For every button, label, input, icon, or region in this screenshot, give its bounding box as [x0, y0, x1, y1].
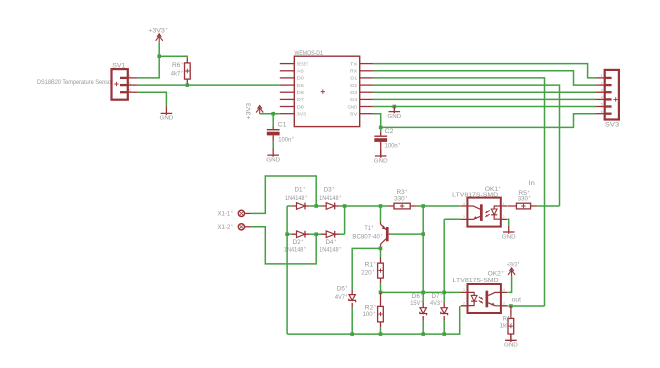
connector SV3 — [605, 70, 619, 120]
svg-text:D3: D3 — [350, 90, 357, 96]
svg-text:GND: GND — [348, 104, 358, 110]
ground GND (SV1) — [160, 106, 174, 122]
terminal X1-1 — [238, 210, 251, 216]
wire T1 collector down — [380, 247, 382, 257]
junction collector to D5 — [379, 247, 383, 251]
wire D3 to SV3 pin3 — [373, 91, 595, 93]
svg-text:1N4148: 1N4148 — [319, 248, 339, 254]
WEMOS left pin D8 — [280, 106, 295, 108]
capacitor C1 top stub — [272, 127, 274, 130]
wire C2 node to SV3 pin6 — [381, 114, 596, 128]
diode D2 stubs — [292, 233, 310, 235]
svg-text:D8: D8 — [297, 104, 304, 110]
svg-text:100n: 100n — [385, 144, 398, 150]
svg-text:4V3: 4V3 — [430, 301, 441, 307]
svg-text:1k5: 1k5 — [500, 323, 511, 329]
WEMOS right pin TX — [360, 63, 373, 65]
SV3 pin 1 — [595, 77, 605, 79]
svg-text:D2: D2 — [350, 83, 357, 89]
wire OK1 emitter vertical — [443, 219, 445, 302]
svg-text:100n: 100n — [278, 138, 291, 144]
SV3 pin 4 — [595, 98, 605, 100]
wire +3V3 to OK2 collector — [508, 276, 511, 292]
svg-text:+3V3: +3V3 — [148, 29, 165, 35]
svg-text:DS18B20 Temperature Sensor: DS18B20 Temperature Sensor — [37, 80, 113, 86]
WEMOS left pin 3V3 — [280, 113, 295, 115]
WEMOS left pin A0 — [280, 70, 295, 72]
svg-text:LTV817S-SMD: LTV817S-SMD — [453, 278, 499, 284]
wire 5V pin to C2 — [373, 114, 381, 128]
svg-text:D7: D7 — [297, 97, 304, 103]
module U1 WEMOS-D1 box — [294, 56, 359, 126]
wire base divider vertical — [422, 206, 424, 302]
svg-text:2: 2 — [601, 81, 603, 85]
junction R6 to data line — [186, 83, 190, 87]
svg-text:D1: D1 — [350, 76, 357, 82]
OK1 phototransistor — [480, 204, 483, 221]
wire R6 bottom — [186, 84, 188, 86]
svg-text:15V: 15V — [410, 301, 420, 307]
svg-text:3: 3 — [601, 88, 603, 92]
resistor R5 stubs — [508, 205, 537, 207]
wire collector to D5 branch — [352, 248, 380, 289]
svg-text:+3V3: +3V3 — [247, 102, 253, 119]
svg-text:In: In — [529, 181, 535, 187]
svg-text:4: 4 — [463, 202, 465, 206]
svg-text:D4: D4 — [326, 240, 335, 246]
capacitor C2 top stub — [380, 132, 382, 136]
svg-text:D5: D5 — [297, 83, 304, 89]
wire down to C1 — [272, 114, 274, 127]
svg-text:R3: R3 — [397, 190, 406, 196]
svg-text:3: 3 — [129, 88, 131, 92]
svg-text:GND: GND — [266, 157, 280, 163]
terminal X1-2 — [238, 224, 251, 230]
svg-text:WEMOS-D1: WEMOS-D1 — [295, 51, 324, 57]
svg-text:6: 6 — [601, 110, 603, 114]
wire D1 cathode to AC1 — [310, 205, 316, 207]
diode D3 — [326, 203, 335, 210]
ground GND (OK1) — [502, 226, 516, 240]
svg-text:GND: GND — [374, 158, 388, 164]
wire D4 cathode — [339, 233, 344, 235]
svg-text:SV1: SV1 — [112, 63, 126, 69]
wire C1 to GND — [272, 141, 274, 148]
ground GND (WEMOS) — [387, 107, 401, 120]
svg-text:1N4148: 1N4148 — [285, 196, 305, 202]
wire OK1 pin2 left — [444, 218, 460, 220]
wire D1 anode — [287, 205, 292, 207]
WEMOS right pin D3 — [360, 91, 373, 93]
WEMOS left pin RESET — [280, 63, 295, 65]
svg-text:4V7: 4V7 — [335, 295, 346, 301]
OK1 LED — [494, 206, 501, 219]
svg-text:D6: D6 — [297, 90, 304, 96]
wire SV1 pin2 data line to WEMOS D5 — [138, 84, 280, 86]
resistor R6 — [185, 63, 191, 79]
svg-text:GND: GND — [502, 234, 516, 240]
resistor R3 stubs — [387, 205, 416, 207]
WEMOS left pin D5 — [280, 84, 295, 86]
wire X1-1 to bridge AC1 — [251, 176, 316, 213]
svg-text:RX: RX — [350, 69, 358, 75]
WEMOS left pin D6 — [280, 91, 295, 93]
wire bridge minus vertical — [286, 206, 288, 334]
wire bridge plus vertical — [344, 206, 346, 234]
zener diode D5 — [349, 295, 356, 303]
junction D3 cathode — [343, 204, 347, 208]
svg-text:1: 1 — [503, 202, 505, 206]
wire D2 to In net vertical — [373, 85, 560, 206]
svg-text:out: out — [512, 297, 521, 303]
svg-text:D3: D3 — [324, 188, 333, 194]
OK1 light arrows — [485, 210, 489, 213]
junction D6 rail — [421, 332, 425, 336]
junction D2 anode — [285, 232, 289, 236]
svg-text:D4: D4 — [350, 97, 357, 103]
svg-text:RESET: RESET — [297, 61, 308, 67]
svg-text:100: 100 — [363, 312, 374, 318]
svg-text:TX: TX — [350, 61, 358, 67]
wire +3V3 to WEMOS 3V3 pin — [260, 113, 280, 115]
OK2 LED — [468, 292, 475, 305]
SV1 pin 2 — [120, 84, 128, 86]
resistor R4 — [508, 318, 514, 334]
zener D7 stubs — [443, 302, 445, 320]
SV1 pin 3 — [120, 91, 128, 93]
wire T1 emitter up — [380, 206, 382, 222]
svg-text:GND: GND — [504, 343, 518, 349]
wire SV1 pin1 to +3V3 junction — [138, 56, 160, 78]
zener diode D7 — [441, 308, 448, 316]
diode D3 stubs — [322, 205, 340, 207]
svg-text:330: 330 — [394, 196, 405, 202]
wire D6 to rail — [422, 321, 424, 335]
svg-text:1: 1 — [129, 74, 131, 78]
svg-text:1: 1 — [463, 288, 465, 292]
SV3 pin 6 — [595, 113, 605, 115]
svg-text:X1-2: X1-2 — [218, 225, 231, 231]
junction D6 tap — [421, 291, 425, 295]
svg-text:GND: GND — [387, 114, 401, 120]
capacitor C2 bottom stub — [380, 142, 382, 156]
SV3 pin 3 — [595, 91, 605, 93]
svg-text:330: 330 — [518, 196, 529, 202]
SV3 pin 5 — [595, 106, 605, 108]
wire AC1 to D3 anode — [316, 205, 321, 207]
wire RX to SV3 pin2 — [373, 71, 595, 85]
SV1 pin 1 — [120, 77, 128, 79]
wire out net — [508, 305, 544, 307]
junction T1 base — [421, 232, 425, 236]
junction D5 rail — [350, 332, 354, 336]
svg-text:C2: C2 — [385, 129, 395, 135]
resistor R6 stubs — [186, 58, 188, 84]
WEMOS right pin D4 — [360, 98, 373, 100]
wire bridge plus to R3 — [345, 205, 388, 207]
wire D4 to SV3 pin4 — [373, 98, 595, 100]
svg-text:D6: D6 — [412, 294, 421, 300]
zener D5 stubs — [351, 289, 353, 307]
WEMOS right pin D2 — [360, 84, 373, 86]
zener diode D6 — [420, 308, 427, 316]
wire +3V3 arrow to junction — [158, 42, 160, 56]
capacitor C2 — [374, 136, 387, 142]
svg-text:BC807-40: BC807-40 — [352, 234, 380, 240]
WEMOS origin cross — [321, 90, 325, 94]
wire D7 to rail — [443, 321, 445, 335]
wire R1 to mid node — [380, 283, 382, 292]
WEMOS left pin D7 — [280, 98, 295, 100]
svg-text:3V3: 3V3 — [297, 112, 307, 118]
resistor R1 — [378, 263, 384, 278]
svg-text:1: 1 — [601, 74, 603, 78]
svg-text:4: 4 — [503, 288, 505, 292]
svg-text:X1-1: X1-1 — [218, 212, 231, 218]
svg-text:3: 3 — [503, 302, 505, 306]
diode D4 — [326, 231, 335, 238]
wire TX to SV3 pin1 — [373, 64, 595, 78]
capacitor C1 bottom stub — [272, 135, 274, 141]
svg-text:2: 2 — [463, 302, 465, 306]
power +3V3 symbol (OK2) — [508, 268, 515, 276]
SV3 pin 2 — [595, 84, 605, 86]
wire X1-2 to bridge AC2 — [251, 227, 316, 264]
ground GND (R4) — [504, 334, 518, 349]
wire D3 cathode — [339, 205, 344, 207]
svg-text:D1: D1 — [295, 188, 304, 194]
zener D6 stubs — [422, 302, 424, 320]
wire bottom rail — [287, 306, 460, 334]
wire R2 to rail — [380, 327, 382, 334]
resistor R2 stubs — [380, 292, 382, 327]
junction AC2 — [314, 232, 318, 236]
wire junction to R6 top — [159, 56, 187, 58]
wire OK1 pin3 to GND — [507, 219, 510, 226]
svg-text:D0: D0 — [297, 76, 304, 82]
junction D7 tap — [442, 291, 446, 295]
svg-text:220: 220 — [361, 270, 372, 276]
svg-text:D2: D2 — [293, 240, 302, 246]
resistor R1 stubs — [380, 257, 382, 283]
SV3 origin cross — [614, 97, 618, 101]
svg-text:OK2: OK2 — [488, 271, 502, 277]
diode D1 stubs — [292, 205, 310, 207]
OK2 light arrows — [479, 297, 483, 300]
svg-text:GND: GND — [160, 116, 174, 122]
svg-text:R6: R6 — [172, 63, 181, 69]
svg-text:2: 2 — [503, 215, 505, 219]
WEMOS right pin D1 — [360, 77, 373, 79]
wire D5 to rail — [351, 308, 353, 335]
wire GND to SV3 pin5 — [373, 106, 595, 108]
svg-text:5: 5 — [601, 103, 603, 107]
diode D4 stubs — [322, 233, 340, 235]
resistor R2 — [378, 306, 384, 322]
wire D2 anode — [287, 233, 292, 235]
svg-text:4k7: 4k7 — [171, 71, 181, 77]
ground GND (C1) — [266, 148, 280, 163]
svg-text:A0: A0 — [297, 69, 304, 75]
optocoupler OK1 box — [467, 198, 500, 227]
WEMOS right pin RX — [360, 70, 373, 72]
junction R1-R2 — [379, 291, 383, 295]
resistor R3 — [394, 203, 410, 209]
connector SV1 — [112, 69, 128, 100]
resistor R5 — [516, 203, 530, 209]
power +3V3 symbol (C1) — [256, 106, 263, 114]
svg-text:D5: D5 — [337, 286, 346, 292]
svg-text:3: 3 — [463, 215, 465, 219]
junction C1 tap — [271, 112, 275, 116]
OK1 pin stubs — [461, 206, 508, 219]
junction +3V3 node — [157, 54, 161, 58]
WEMOS left pin D0 — [280, 77, 295, 79]
diode D1 — [297, 203, 306, 210]
junction GND tap — [393, 105, 397, 109]
wire T1 base — [391, 233, 423, 235]
OK2 phototransistor — [486, 291, 489, 308]
OK2 pin stubs — [461, 292, 508, 305]
junction D7 rail — [442, 332, 446, 336]
wire SV1 pin3 to GND — [138, 92, 167, 106]
diode D2 — [297, 231, 306, 238]
ground GND (C2) — [374, 150, 388, 164]
svg-text:2: 2 — [129, 81, 131, 85]
svg-text:4: 4 — [601, 96, 603, 100]
svg-text:D7: D7 — [432, 294, 441, 300]
junction T1 emitter tap — [379, 204, 383, 208]
svg-text:LTV817S-SMD: LTV817S-SMD — [452, 192, 498, 198]
WEMOS right pin 5V — [360, 113, 373, 115]
junction AC1 — [314, 204, 318, 208]
SV1 origin cross — [114, 82, 118, 86]
svg-text:5V: 5V — [350, 112, 358, 118]
svg-text:1N4148: 1N4148 — [319, 196, 339, 202]
wire AC2 to D4 anode — [316, 233, 321, 235]
resistor R4 stubs — [510, 306, 512, 340]
junction base-divider tap — [421, 204, 425, 208]
junction R2 rail — [379, 332, 383, 336]
capacitor C1 — [267, 130, 280, 136]
wire mid node to OK2 LED — [381, 291, 461, 293]
wire R3 to OK1 — [417, 205, 461, 207]
wire down to C2 — [380, 127, 382, 131]
svg-text:SV3: SV3 — [605, 122, 620, 128]
WEMOS right pin GND — [360, 106, 373, 108]
wire D1 to Out net vertical — [373, 78, 545, 306]
wire R5 to In vertical — [537, 205, 559, 207]
transistor T1 BC807-40 — [381, 222, 389, 247]
wire D2 cathode to AC2 — [310, 233, 316, 235]
optocoupler OK2 box — [468, 284, 501, 313]
junction out node — [509, 304, 513, 308]
power +3V3 symbol (top-left) — [156, 34, 163, 42]
T1 base stub — [389, 233, 391, 235]
svg-text:C1: C1 — [278, 122, 288, 128]
junction C2 tap — [379, 126, 383, 130]
